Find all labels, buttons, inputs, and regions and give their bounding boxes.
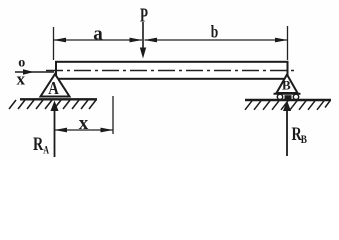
- dimension line a: [54, 38, 143, 43]
- ground right: [245, 100, 331, 110]
- beam centerline: [46, 70, 298, 72]
- beam: [56, 62, 288, 79]
- svg-text:R: R: [33, 134, 43, 155]
- reaction R_B arrow: [283, 101, 291, 157]
- extension line for x dimension: [112, 96, 114, 134]
- pin support A: [41, 74, 70, 97]
- svg-text:b: b: [211, 22, 219, 42]
- dimension x: [55, 128, 114, 133]
- dimension line b: [145, 38, 288, 43]
- x axis arrow with origin o: [15, 69, 54, 75]
- extension line left: [53, 27, 55, 60]
- svg-text:B: B: [301, 134, 307, 146]
- svg-text:x: x: [79, 113, 89, 134]
- extension line right: [287, 26, 289, 60]
- roller support B: [274, 75, 301, 100]
- svg-text:P: P: [140, 5, 148, 27]
- svg-text:o: o: [18, 56, 25, 71]
- reaction R_A arrow: [51, 101, 59, 158]
- ground left: [9, 99, 97, 109]
- svg-text:A: A: [48, 78, 59, 98]
- svg-text:A: A: [43, 145, 49, 157]
- svg-text:a: a: [93, 24, 103, 45]
- load P arrow: [140, 22, 146, 59]
- svg-text:x: x: [16, 70, 25, 89]
- svg-text:B: B: [282, 78, 291, 93]
